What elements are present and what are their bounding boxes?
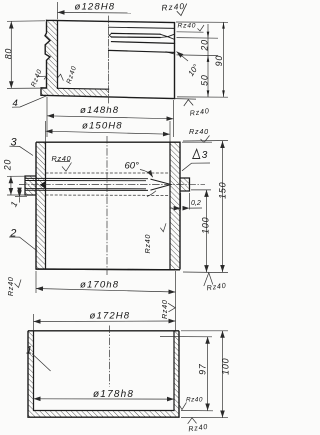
- svg-text:20: 20: [200, 39, 210, 51]
- svg-text:90: 90: [214, 55, 224, 66]
- dim 100 bottom right: [181, 331, 228, 418]
- part 4 outline: [41, 20, 175, 98]
- channel bore lines: [25, 178, 148, 190]
- dim 20 middle-left pin: [7, 176, 25, 195]
- svg-text:ø170h8: ø170h8: [80, 280, 119, 291]
- roughness Rz40 under part 4 bottom: [175, 99, 197, 106]
- svg-text:150: 150: [217, 182, 227, 199]
- dim 100 middle right: [183, 190, 228, 273]
- part 4 groove pointed ends: [109, 33, 174, 54]
- roughness Rz40 below bottom figure: [188, 418, 197, 424]
- svg-text:50: 50: [200, 74, 210, 85]
- channel centerline: [19, 183, 205, 185]
- svg-text:3: 3: [202, 150, 208, 161]
- part 4 centerline: [108, 16, 110, 103]
- part 2 outline: [36, 142, 180, 270]
- part 1 inner surface: [34, 331, 175, 411]
- roughness Rz40 on serrated surface: [37, 76, 47, 79]
- dim Ø172H8: [34, 314, 176, 330]
- dim 90 right: [176, 22, 228, 97]
- svg-text:Rz40: Rz40: [186, 397, 203, 404]
- dim 97 bottom right: [160, 337, 213, 411]
- part 2 bore edges: [46, 142, 171, 269]
- dim 50 right: [177, 96, 228, 98]
- svg-text:Rz40: Rz40: [160, 299, 169, 319]
- channel seat cone at left wall: [40, 181, 46, 189]
- svg-text:0,2: 0,2: [191, 200, 201, 207]
- part 4 left wall hatched section: [45, 20, 58, 88]
- svg-text:Rz40: Rz40: [6, 277, 15, 297]
- svg-text:ø128H8: ø128H8: [75, 1, 116, 12]
- svg-text:ø148h8: ø148h8: [80, 105, 119, 116]
- svg-text:100: 100: [200, 217, 210, 234]
- roughness Rz40 below middle right: [204, 273, 213, 286]
- channel hidden lines: [46, 173, 171, 195]
- svg-text:100: 100: [220, 358, 230, 375]
- svg-text:80: 80: [3, 48, 13, 59]
- dim Ø148h8: [47, 97, 174, 137]
- part 1 right wall hatched: [174, 331, 179, 411]
- part 2 right wall hatched: [170, 142, 180, 269]
- svg-text:1: 1: [26, 344, 32, 356]
- svg-text:60°: 60°: [125, 160, 140, 171]
- svg-text:3: 3: [11, 137, 18, 149]
- part 4 flange top line in bore: [58, 87, 109, 90]
- pin 3 left hatched: [25, 176, 36, 195]
- svg-text:ø150H8: ø150H8: [82, 120, 123, 131]
- svg-text:ø172H8: ø172H8: [90, 310, 131, 321]
- dim 1 middle-left: [15, 190, 27, 203]
- dim Ø170h8: [36, 271, 176, 331]
- svg-text:Rz40: Rz40: [189, 127, 209, 136]
- channel 60 deg cone: [151, 179, 172, 190]
- part 4 external groove lines: [109, 27, 175, 28]
- roughness Rz40 on bore surface: [58, 74, 64, 80]
- svg-text:ø178h8: ø178h8: [93, 389, 134, 400]
- svg-text:97: 97: [197, 363, 207, 375]
- part 1 centerline: [109, 326, 111, 387]
- pin 3 right hatched: [180, 178, 190, 191]
- mark triangle 3 right: [193, 149, 200, 158]
- angle 60 deg annotation arcs: [140, 170, 153, 178]
- part 4 bore inner edge: [57, 20, 59, 88]
- part 2 bottom rim line: [36, 268, 180, 271]
- svg-text:2: 2: [9, 227, 16, 239]
- dim 0.2 right pin: [170, 193, 202, 210]
- dim 80 left: [7, 21, 45, 89]
- part 2 left wall hatched: [36, 142, 46, 269]
- part 1 outer outline: [28, 331, 179, 417]
- part 2 vertical centerline: [106, 136, 108, 275]
- dim 20 right (groove zone): [177, 24, 219, 97]
- part 1 bottom wall hatched: [28, 411, 179, 418]
- pin 3 right outline: [180, 178, 190, 191]
- dim Ø128H8: [58, 2, 132, 19]
- part 1 left wall hatched: [28, 331, 34, 411]
- part 4 bottom flange hatched section: [41, 88, 109, 97]
- pin 3 left outline: [25, 176, 36, 195]
- dim Ø178h8: [34, 398, 175, 400]
- svg-text:Rz40: Rz40: [178, 23, 197, 30]
- triangle-3 leader with shelf: [182, 163, 210, 171]
- part 1 top rim: [28, 330, 179, 332]
- svg-text:Rz40: Rz40: [143, 234, 152, 254]
- svg-text:20: 20: [2, 159, 12, 171]
- dim 150 middle right: [183, 141, 228, 273]
- dim Ø150H8: [46, 121, 171, 142]
